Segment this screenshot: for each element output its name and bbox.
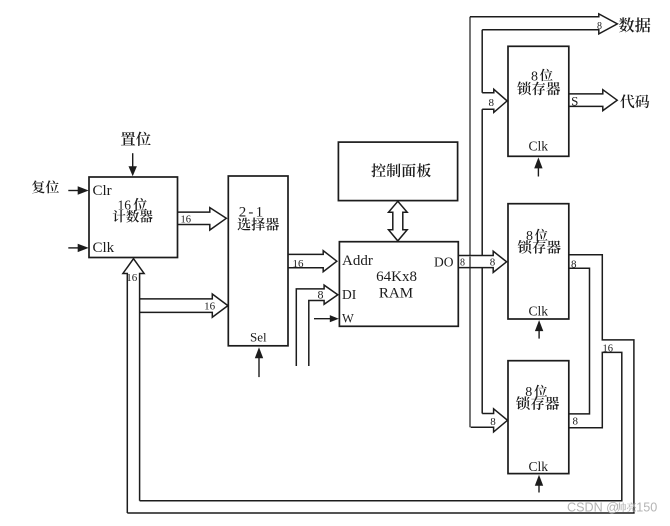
clk arrow into counter Clk <box>68 244 88 252</box>
counter label 计数器 <box>113 210 153 223</box>
svg-text:8: 8 <box>460 257 465 268</box>
2-1 selector block <box>228 176 288 346</box>
bus selector to RAM Addr (16) <box>288 251 337 272</box>
latch U1 label 锁存器 <box>517 82 560 96</box>
feedback bus up into counter (16) <box>123 259 144 513</box>
svg-text:16: 16 <box>181 214 192 225</box>
svg-text:8: 8 <box>571 259 577 271</box>
latch U3 (bottom) block <box>508 361 569 474</box>
svg-text:16: 16 <box>204 301 216 313</box>
bus counter to selector (16) <box>178 208 227 230</box>
control panel label <box>371 163 430 177</box>
feedback bus outer line (latch U2 out, right side, bottom) <box>127 255 634 513</box>
svg-text:Clr: Clr <box>93 183 112 199</box>
svg-text:Clk: Clk <box>529 138 549 153</box>
svg-text:Clk: Clk <box>529 459 549 474</box>
clk arrow into latch U2 <box>535 320 543 339</box>
bus RAM DO to latch U2 (8) <box>458 251 506 272</box>
svg-text:16: 16 <box>602 344 613 355</box>
latch U3 label 锁存器 <box>516 396 559 410</box>
latch U2 label 锁存器 <box>518 240 561 254</box>
vertical bus DO riser left line <box>469 17 471 428</box>
svg-text:S: S <box>571 94 578 109</box>
bus branch into latch U3 (8) <box>471 409 508 432</box>
set arrow into counter top <box>129 153 137 176</box>
reset arrow into Clr <box>68 186 88 194</box>
feedback bus inner line (latch U3 out, right side, bottom) <box>140 352 622 500</box>
svg-text:150: 150 <box>636 501 657 515</box>
label 置位 (set) <box>121 132 151 146</box>
svg-text:W: W <box>342 311 354 325</box>
feedback bus branch into selector (16) <box>140 294 228 317</box>
bus branch into latch U1 (8) <box>482 89 507 112</box>
bus into RAM DI (8) <box>296 285 338 366</box>
sel arrow into selector bottom <box>255 347 263 377</box>
svg-text:Addr: Addr <box>342 253 373 269</box>
bus latch U1 to 代码 output (S) <box>569 90 617 111</box>
clk arrow into latch U3 <box>535 475 543 493</box>
label 数据 (data out) <box>619 17 650 32</box>
svg-text:DO: DO <box>434 254 454 269</box>
vertical bus DO riser right line <box>481 30 483 414</box>
selector label 选择器 <box>238 218 280 231</box>
svg-text:Sel: Sel <box>250 330 267 345</box>
clk arrow into latch U1 <box>534 157 542 176</box>
control panel block 控制面板 <box>338 142 457 201</box>
svg-text:8: 8 <box>573 416 579 428</box>
svg-text:2-1: 2-1 <box>239 204 266 220</box>
latch U1 (top) block <box>508 46 569 156</box>
bidirectional arrow control panel to RAM <box>389 201 408 241</box>
svg-text:RAM: RAM <box>379 286 413 302</box>
16-bit counter block <box>89 177 178 258</box>
svg-text:CSDN @: CSDN @ <box>567 501 619 515</box>
svg-text:8: 8 <box>490 416 496 428</box>
svg-text:8: 8 <box>490 257 496 269</box>
RAM block <box>339 242 458 327</box>
label 复位 (reset) <box>32 180 59 193</box>
label 代码 (code out) <box>620 94 649 108</box>
svg-text:Clk: Clk <box>93 240 115 256</box>
svg-text:64Kx8: 64Kx8 <box>376 269 417 285</box>
svg-text:8: 8 <box>597 21 602 32</box>
svg-text:16: 16 <box>126 272 138 284</box>
svg-text:8: 8 <box>318 288 324 302</box>
svg-text:16: 16 <box>293 258 305 270</box>
svg-text:Clk: Clk <box>529 304 549 319</box>
svg-text:DI: DI <box>342 287 357 302</box>
latch U2 (middle) block <box>508 204 569 319</box>
svg-text:8: 8 <box>489 97 495 109</box>
W arrow into RAM <box>314 315 339 322</box>
feedback bus line latch U2 bottom to latch U3 top <box>569 268 590 414</box>
bus to 数据 output (8) <box>470 14 617 34</box>
